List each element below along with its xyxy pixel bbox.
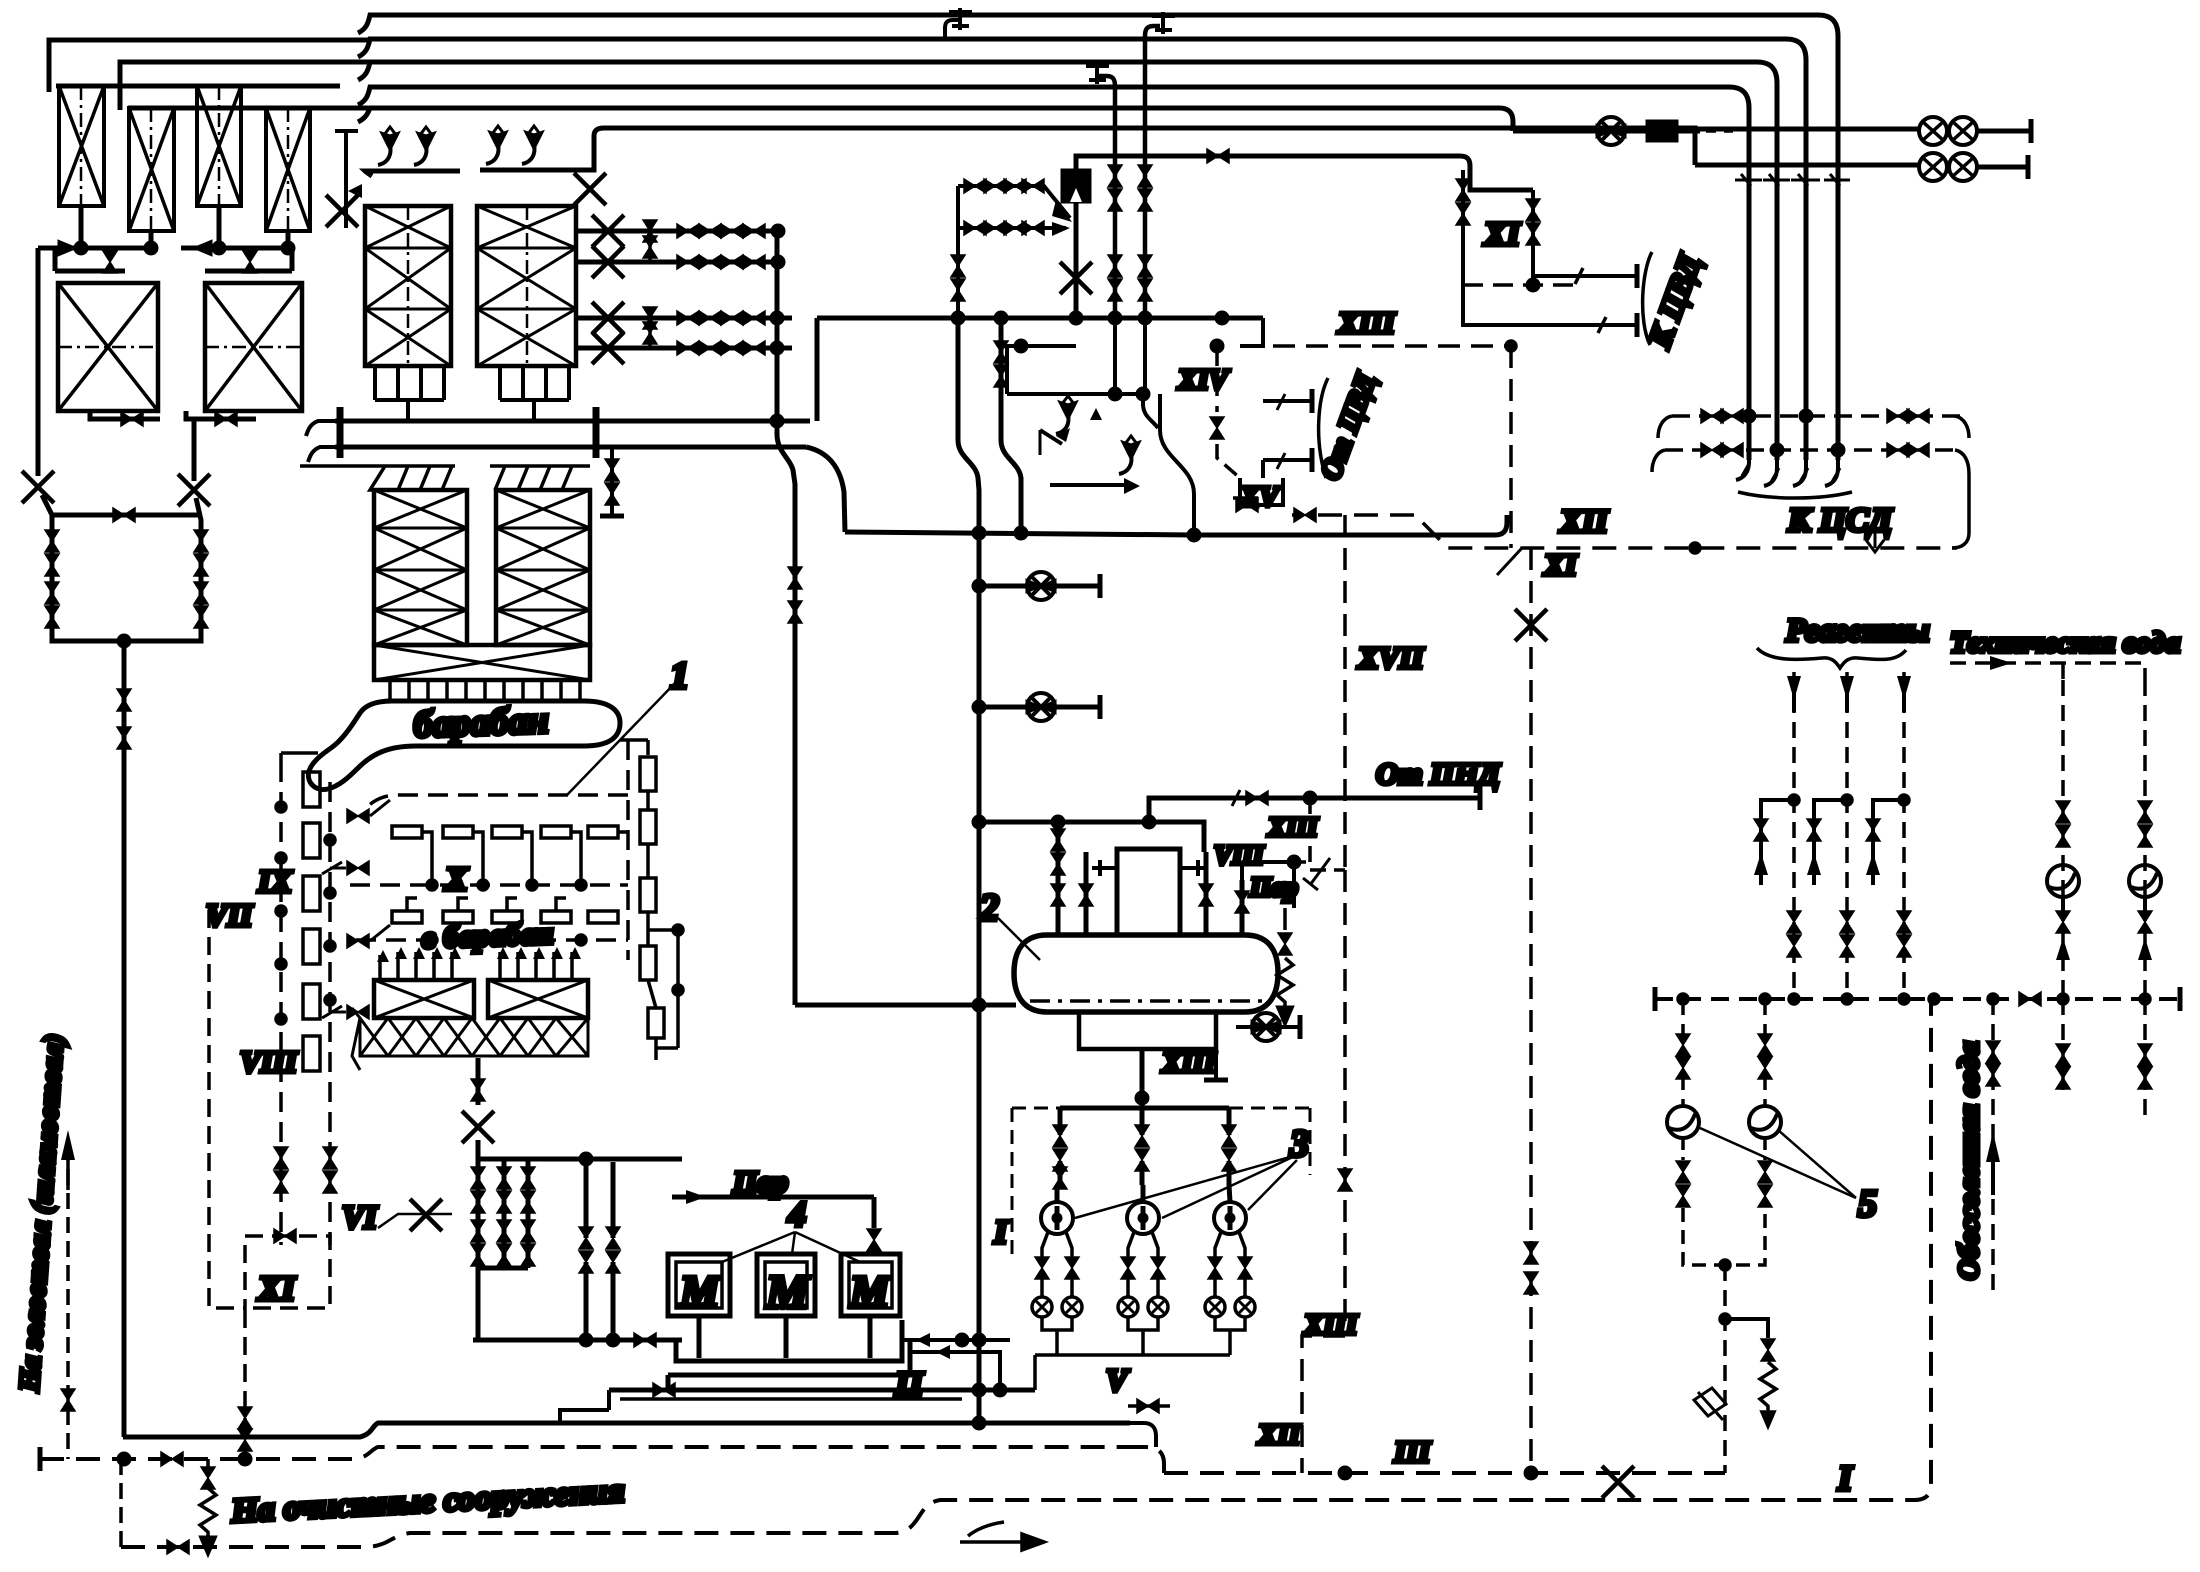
svg-text:XV: XV (1239, 481, 1281, 513)
5 pointer lines (1700, 1128, 1856, 1198)
drain with zigzag x=208 (206, 1459, 210, 1468)
svg-text:V: V (1106, 1362, 1130, 1398)
line E (358, 108, 1513, 131)
steam line Par (672, 1197, 874, 1228)
vent curls center (1056, 396, 1074, 434)
legs under superheater (375, 366, 569, 419)
service water pump B (2129, 865, 2161, 897)
svg-text:VIII: VIII (1214, 840, 1265, 870)
drain pump at deaerator (1252, 1013, 1280, 1041)
svg-text:Обессоленная вода: Обессоленная вода (1953, 1041, 1985, 1280)
service water pump A (2047, 865, 2079, 897)
dashed XI link (1463, 283, 1583, 287)
svg-text:XI: XI (257, 1269, 296, 1308)
svg-text:XVII: XVII (1357, 640, 1424, 675)
side branch with zigzag (1725, 1319, 1768, 1338)
row 4 (576, 346, 792, 351)
water wall block W with up arrows (352, 947, 588, 1070)
4 pointer lines (722, 1232, 860, 1262)
lower manifold y=346/372 (1001, 344, 1076, 348)
turbine seal steam circles row 1 (1695, 127, 1919, 132)
line y=822 (979, 822, 1204, 852)
boiler feed pump 3a (1041, 1202, 1073, 1234)
y1390 line (609, 1388, 1035, 1393)
relief with zigzag right (1283, 908, 1287, 930)
vent flag on line B at x=945 (945, 20, 960, 39)
y1447 dashed collector (40, 1447, 1124, 1459)
gland steam condenser circles row 1 (1919, 117, 1947, 145)
big heater box A (58, 283, 158, 411)
collector verticals going down (777, 231, 795, 1005)
row 1 (576, 229, 778, 234)
svg-text:М: М (849, 1267, 891, 1316)
air heater box 2 (129, 108, 174, 231)
vent riser pipe with flag (right) (1145, 26, 1160, 318)
pump discharges: two branches each (1032, 1232, 1255, 1390)
economizer block E right (496, 490, 590, 645)
svg-text:II: II (894, 1364, 925, 1404)
XIII dashed from manifold to XIII vertical (1240, 344, 1511, 348)
air heater box 4 (266, 108, 310, 231)
XV assembly (1240, 478, 1283, 505)
line C (358, 62, 1777, 460)
svg-text:Пар: Пар (732, 1164, 788, 1199)
manifold under boxes (38, 206, 293, 273)
line B (358, 39, 1806, 460)
wire: ejector line E to silencer (1513, 129, 1598, 134)
svg-text:VI: VI (342, 1200, 378, 1236)
dashed boundary of panels (node 1) (281, 740, 628, 1245)
economizer block E left (374, 490, 467, 645)
hooks at bottoms of 4 verticals (1736, 450, 1838, 486)
gland steam condenser circles row 2 (1919, 153, 1947, 181)
big heater box B (205, 283, 302, 411)
feed pump P1 (1027, 572, 1055, 600)
svg-text:IX: IX (257, 863, 292, 899)
K CVD t-lines (1555, 276, 1637, 325)
block S1 (365, 206, 451, 366)
line F (604, 128, 1695, 165)
reagents brace (1757, 648, 1906, 668)
svg-text:1: 1 (670, 655, 689, 697)
svg-text:4: 4 (787, 1194, 806, 1234)
svg-text:XIII: XIII (1267, 812, 1319, 842)
pump X right of vessel (1236, 1025, 1252, 1029)
legs under vessel (1079, 1012, 1216, 1049)
main steam double pipe (335, 407, 810, 516)
svg-text:XIV: XIV (1177, 364, 1231, 396)
svg-text:III: III (1393, 1434, 1431, 1469)
demin water line (1991, 999, 1995, 1290)
label 2 pointer (998, 918, 1040, 960)
XII long dashed (1318, 515, 1957, 548)
row 3 (576, 316, 792, 321)
boiler feed pump 3b (1127, 1202, 1159, 1234)
evaporator M1 (668, 1254, 730, 1316)
y1423 solid collector (123, 1423, 1130, 1437)
feed pump P2 (1027, 693, 1055, 721)
svg-text:X: X (444, 861, 469, 898)
VI pointer (378, 1214, 452, 1228)
small panels row 2 (392, 898, 618, 945)
svg-text:5: 5 (1858, 1183, 1877, 1225)
svg-text:I: I (993, 1214, 1009, 1251)
Na zolootval dashed line left (66, 1145, 70, 1459)
dashed from OtPND down (XIII) (1310, 798, 1345, 870)
svg-text:2: 2 (979, 887, 999, 929)
line D (358, 87, 1749, 460)
XIV dashed vertical (1215, 346, 1219, 412)
drum барабан (308, 701, 620, 790)
line A (358, 15, 1838, 460)
pipes below big boxes with bowties (38, 248, 256, 481)
boiler feed pump 3c (1214, 1202, 1246, 1234)
svg-text:Реагенты: Реагенты (1785, 613, 1929, 649)
transfer pump 5b (1749, 1106, 1781, 1138)
svg-text:VII: VII (206, 897, 254, 933)
row 2 (1695, 163, 1919, 168)
vent riser pipe with flag (left) (1098, 76, 1115, 318)
air heater box 1 (59, 86, 104, 206)
right pipes (1206, 852, 1242, 935)
svg-text:М: М (765, 1266, 811, 1319)
svg-text:К ЦСД: К ЦСД (1787, 502, 1894, 539)
left vertical drop of y1390 line (560, 1390, 609, 1423)
comb of drum risers (390, 680, 580, 700)
svg-text:XIII: XIII (1337, 305, 1396, 340)
pump loop bottom right (1683, 999, 1765, 1105)
group I dashed boundary (1011, 1108, 1014, 1260)
vessel body (1014, 935, 1278, 1012)
transfer pump 5a (1667, 1106, 1699, 1138)
svg-text:М: М (679, 1267, 721, 1316)
vertical x=958 curving to 979 (958, 318, 979, 1423)
economizer wide X row (374, 645, 590, 680)
instrument tap on riser (1694, 1388, 1726, 1420)
duct band 2 (120, 62, 368, 110)
pump/ejector U1 (1597, 117, 1625, 145)
restrictor line y156 (1076, 156, 1533, 318)
svg-text:XI: XI (1543, 547, 1578, 582)
evaporator M3 (841, 1254, 900, 1316)
svg-text:XI: XI (1483, 216, 1522, 253)
feed pipes left (1058, 822, 1086, 935)
svg-text:XIII: XIII (1161, 1047, 1217, 1079)
svg-text:XII: XII (1559, 504, 1609, 540)
label 1 pointer (567, 682, 676, 795)
block S2 (477, 206, 576, 366)
tech water dashed header (1950, 663, 2145, 680)
svg-text:XII: XII (1257, 1419, 1302, 1451)
svg-text:XIII: XIII (1303, 1309, 1359, 1341)
silencer (black box) (1648, 122, 1676, 140)
bottom dashed y1547 (119, 1459, 123, 1547)
label 3 pointer lines (1075, 1155, 1297, 1218)
wire: pipe left ends curve down to economizer header (306, 421, 335, 462)
svg-text:Техническая вода: Техническая вода (1950, 626, 2180, 659)
small panels row 1 (392, 826, 628, 890)
svg-text:I: I (1837, 1458, 1854, 1498)
three reagent dashed verticals (1794, 672, 1904, 999)
left loop with valves (42, 495, 208, 1437)
left jog branches with valves (1761, 800, 1904, 885)
duct band 1 (49, 40, 368, 92)
svg-text:в барабан: в барабан (421, 915, 554, 955)
main bottom-right dashed header y=999 (1655, 997, 2180, 1001)
row 2 (576, 260, 778, 265)
bowtie row left of manifold x=958 (956, 186, 960, 318)
XXX hatch row (352, 1008, 588, 1070)
X closed valves left column (22, 471, 54, 503)
svg-text:От ПНД: От ПНД (1376, 756, 1501, 791)
tech water continue below (2063, 999, 2145, 1116)
Ot CVD hooks (1263, 401, 1312, 460)
tech water verticals (2063, 680, 2145, 999)
XVII vertical dashed (1343, 515, 1347, 1336)
svg-text:3: 3 (1289, 1123, 1309, 1165)
suction manifold (1060, 1108, 1229, 1135)
svg-text:Пар: Пар (1249, 872, 1298, 902)
ladder left rungs (water sampling rack) (274, 753, 390, 1193)
S riser from manifold to feed line (1160, 394, 1194, 535)
crossing tick marks on wrap verticals (1735, 179, 1850, 182)
economizer inlet header with arrows (300, 466, 590, 490)
svg-text:барабан: барабан (413, 699, 549, 746)
right side column of small verticals (node 1 rack) (620, 740, 683, 1060)
U collector under boxes (699, 1316, 870, 1358)
main line y=318 (817, 316, 1263, 321)
svg-text:VIII: VIII (240, 1044, 298, 1079)
air heater box 3 (197, 86, 241, 206)
long feed line y=535 (845, 515, 1507, 535)
bottom valves on reagent lines (1787, 911, 1801, 933)
evaporator M2 (757, 1254, 815, 1316)
wire: blowdown line to deaerator level (795, 1003, 1016, 1008)
vertical x=1001 curving to 1021 (1001, 318, 1021, 532)
XI vertical dashed (1529, 548, 1533, 1473)
head column (1117, 849, 1180, 935)
